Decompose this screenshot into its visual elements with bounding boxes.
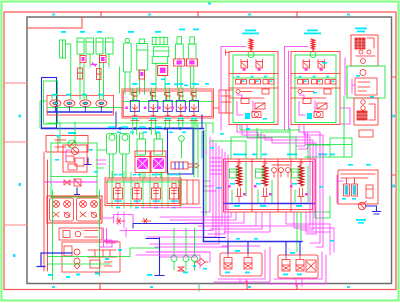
LCM magenta dots	[228, 185, 308, 196]
green riser bottom-center trio	[174, 228, 195, 256]
green under-row bus	[47, 123, 213, 133]
magenta from B1 bottom	[214, 125, 310, 227]
valve RV2	[100, 56, 107, 63]
twin cell 1	[50, 198, 74, 221]
LCM small valve group	[272, 165, 291, 177]
row2 frame	[122, 89, 214, 118]
LCM spring column 3	[298, 159, 304, 202]
title block box top-left	[27, 17, 82, 28]
green horiz bottom-left	[130, 248, 160, 257]
LCM cyan top labels	[233, 154, 335, 156]
block B1 small box	[262, 89, 269, 94]
valve RV5	[139, 70, 145, 79]
zone tick left	[4, 224, 27, 226]
check valve CV2	[74, 179, 81, 186]
enclosure E1	[51, 143, 97, 197]
LCM cyl 3	[292, 169, 299, 178]
wire riser	[119, 67, 121, 93]
accumulator A1	[107, 134, 117, 179]
LCM green internals	[232, 162, 308, 202]
block B1 magenta bit	[237, 95, 242, 99]
block B1 rail1	[229, 73, 278, 75]
LCM cell divider	[252, 159, 291, 212]
TR unit2 green frame	[347, 66, 385, 98]
TR unit2 circle	[360, 70, 366, 76]
valve cluster VC1 magenta	[66, 150, 70, 160]
end block row2	[219, 90, 233, 113]
block B1 box2	[241, 99, 249, 104]
LM unit 1	[112, 172, 124, 208]
pump P1 arrow	[69, 141, 75, 147]
RPU cylinder	[366, 185, 373, 198]
block B1 port circle	[248, 52, 254, 58]
block B1 magenta loop	[253, 101, 255, 112]
valve RV1	[80, 56, 86, 63]
block B2 rail3	[291, 97, 326, 99]
magenta stub to manifold	[204, 181, 216, 191]
cyan ticks on row1 top	[52, 94, 103, 96]
small valve SV1 under manifold	[116, 219, 151, 224]
TR unit3 frame	[354, 98, 378, 125]
valve cluster VC1 boxes	[66, 156, 84, 170]
block B2 magenta bit	[299, 95, 304, 99]
green cross lines bottom-left	[47, 257, 130, 265]
oval valve OV2	[64, 100, 75, 107]
magenta under LM	[141, 207, 201, 209]
LM unit 3	[150, 172, 162, 208]
block B1 label	[242, 30, 259, 35]
BVG1 unit b	[244, 253, 252, 269]
row1 blue bus inside	[48, 111, 112, 113]
cylinder E	[176, 37, 184, 88]
RPU blue drain	[366, 206, 381, 214]
RPU valve L	[344, 178, 350, 196]
magenta right of B2	[344, 58, 346, 95]
BVG2 frame	[278, 255, 318, 278]
zone tick bottom	[246, 281, 248, 290]
extra magenta bundle density	[96, 150, 334, 286]
zone letter left	[13, 254, 16, 257]
block B1 bottom circle box	[252, 112, 261, 118]
relief valve RV3	[78, 68, 83, 79]
BVG2 cyan	[283, 252, 302, 275]
lower complex internals	[64, 246, 116, 269]
cyan scatter top	[55, 29, 374, 276]
tank T1	[60, 40, 66, 58]
mini valve cyan ticks	[237, 76, 273, 82]
BVG2 unit c box	[306, 260, 316, 272]
drain tick blue	[85, 158, 91, 165]
twin cluster frame	[47, 196, 102, 223]
relief valve RV4	[97, 69, 102, 80]
blue bus bottom	[42, 128, 204, 130]
green stems under circles	[174, 262, 195, 271]
TR unit1 hatch box	[355, 38, 365, 49]
block B1 inner green	[233, 55, 274, 123]
magenta guide left of B1	[221, 47, 246, 131]
block B2 label	[304, 30, 321, 35]
blue bottom bus	[204, 241, 303, 243]
block B1 arrow valve	[255, 103, 265, 109]
green enclosure narrow	[44, 81, 58, 124]
zone number top	[347, 14, 350, 16]
cylinder pair CY2	[96, 38, 103, 54]
bottle accumulator B	[124, 38, 132, 94]
zone tick left	[4, 82, 27, 84]
zone letter right	[393, 185, 396, 188]
row2 green bus	[122, 101, 214, 103]
accumulator labels	[108, 126, 162, 128]
blue drop arrow	[75, 188, 80, 195]
cylinder CY1 caps	[77, 41, 84, 43]
oval valve OV1	[50, 100, 61, 107]
zone number bottom	[52, 286, 55, 288]
blue stub	[115, 112, 117, 129]
block B2 bottom magenta	[299, 102, 305, 116]
oval valve OV3	[80, 100, 91, 107]
zone letter right	[393, 115, 396, 118]
green circle J1	[171, 256, 177, 262]
accumulator A2	[120, 134, 130, 179]
zone tick top	[197, 12, 199, 17]
green verticals below row2	[133, 119, 137, 135]
magenta stubs left cluster	[104, 240, 115, 247]
TR unit3 hatch	[357, 111, 367, 120]
BVG1 frame	[220, 253, 262, 276]
cylinder F	[188, 37, 196, 88]
block B1 check circle	[236, 90, 252, 94]
TR unit1 frame	[351, 35, 378, 66]
TR unit3 circles	[361, 100, 365, 110]
green circle J2	[183, 256, 189, 262]
mixer box M2	[59, 228, 102, 240]
magenta riser bundle center	[201, 137, 210, 212]
TR unit1 circles	[359, 50, 371, 63]
block B2 check circle	[298, 90, 314, 94]
valve cluster VC1 frame	[63, 145, 87, 172]
BVG2 unit b	[296, 255, 304, 271]
filter C	[137, 39, 148, 94]
zone tick bottom	[99, 284, 101, 290]
zone number bottom	[347, 286, 350, 288]
valve unit VU5	[185, 83, 199, 119]
bottom-left blue pipe	[37, 253, 72, 267]
magenta pipe under manifold	[103, 215, 133, 223]
zone number top	[52, 14, 55, 16]
block B2 rail2	[291, 87, 340, 89]
block B2 arrow valve	[317, 103, 327, 109]
zone tick top	[100, 12, 102, 17]
zone tick bottom	[296, 284, 298, 290]
cylinder CY2 caps	[96, 41, 103, 43]
magenta loops left bottom	[104, 240, 118, 242]
magenta from B2 bottom	[299, 125, 320, 151]
blue riser left-center	[201, 115, 203, 128]
magenta under bottom valve groups	[218, 250, 265, 279]
block B1 mini valve row	[236, 80, 275, 85]
block B2 bottom circle box	[314, 112, 323, 118]
twin cell 2	[77, 198, 101, 221]
check valve CV1	[64, 180, 70, 185]
magenta guide pair	[288, 51, 290, 130]
gauge enclosure	[168, 128, 194, 174]
valve RV8	[186, 59, 197, 66]
LM unit 2	[131, 172, 143, 208]
accumulator A4	[154, 133, 163, 155]
LCM frame	[224, 159, 316, 212]
red tiny box right mid	[359, 130, 373, 137]
sub valve row magenta pipe	[45, 181, 97, 183]
red bowtie under circles	[178, 267, 184, 271]
red diamond left of BVG1	[194, 259, 208, 266]
pump P1 circle	[68, 140, 76, 148]
pump label	[68, 132, 76, 134]
tank T1 inner line	[62, 40, 64, 58]
zone letter left	[19, 115, 22, 118]
row1 frame	[47, 95, 114, 115]
mini valve cyan ticks	[299, 76, 335, 82]
blue enclosure narrow	[42, 78, 57, 129]
valve unit VU1	[125, 83, 139, 119]
green net below blocks	[231, 137, 296, 159]
green verticals through row1	[40, 93, 196, 168]
valve cluster VC1 pump circle	[71, 147, 78, 154]
zone number top	[148, 14, 151, 16]
zone tick top	[296, 12, 298, 17]
green route nest right	[305, 138, 352, 157]
BVG2 unit a	[282, 255, 290, 271]
RPU pump circle	[358, 201, 366, 210]
green feeder into green box	[60, 122, 75, 143]
block B1 rail2	[229, 87, 278, 89]
block B2 inner green	[295, 55, 336, 123]
accumulator A3	[137, 133, 146, 155]
valve unit VU2	[144, 83, 158, 119]
cyan dots bottom-left	[48, 249, 122, 278]
zone number bottom	[150, 286, 153, 288]
RPU magenta feed	[337, 175, 343, 203]
red dashes under units	[131, 120, 198, 122]
green rail right	[344, 66, 347, 157]
pump P1 internals	[55, 136, 66, 152]
LCM cyl 1	[230, 169, 237, 178]
TR unit1 bits	[356, 38, 375, 56]
row1 green bus	[47, 107, 123, 109]
blue branch	[133, 224, 204, 229]
block B1 rail3	[229, 97, 264, 99]
manifold LM frame	[105, 178, 181, 206]
BVG1 unit a	[224, 253, 232, 269]
blue riser mid bottom	[146, 238, 164, 276]
valve RV6	[158, 66, 168, 76]
block B1 cyan box	[245, 113, 250, 119]
zone letter left	[19, 183, 22, 186]
gauge G1	[179, 136, 185, 158]
end block detail	[214, 90, 232, 113]
LM green bus	[105, 181, 181, 183]
wire from T1	[66, 44, 71, 95]
oval valve OV4	[96, 100, 107, 107]
TR unit3 bits	[369, 104, 375, 120]
block B2 mini valve row	[298, 80, 337, 85]
LCM spring column 1	[236, 159, 242, 202]
block B2 cyan box	[307, 113, 312, 119]
block B2 frame	[291, 52, 340, 125]
filter F1	[135, 151, 150, 178]
manifold LM extension	[181, 180, 199, 204]
zone number bottom	[248, 286, 251, 288]
RPU frame	[338, 170, 378, 204]
wires below CY2	[99, 54, 101, 93]
magenta bottom staircase	[147, 251, 210, 253]
blue drops to BVG2	[286, 242, 300, 256]
block B2 spring	[311, 39, 315, 51]
LCM cyan labels inside	[217, 183, 303, 207]
valve RV7	[174, 59, 185, 66]
LCM blue bus	[224, 203, 314, 205]
cylinder pair CY1	[77, 38, 84, 54]
block B2 solenoid L	[303, 60, 310, 71]
block B2 magenta loop	[315, 101, 317, 112]
TR unit2 box	[355, 78, 377, 95]
zone number top	[208, 3, 211, 5]
zone number top	[248, 14, 251, 16]
block B1 frame	[229, 52, 278, 125]
blue drops from ovals	[55, 107, 101, 112]
green verticals bottom right of manifold	[297, 212, 301, 252]
block B1 solenoid R	[256, 60, 263, 71]
block B1 spring	[249, 39, 253, 51]
magenta guide between blocks	[285, 47, 309, 131]
RPU top rails	[341, 174, 375, 178]
valve unit VU4	[171, 83, 185, 119]
block B1 solenoid L	[241, 60, 248, 71]
blue junction dots	[119, 127, 181, 129]
lower complex frame	[62, 242, 120, 272]
blue drops to BVG1	[228, 242, 248, 254]
green rails through cluster	[53, 190, 100, 280]
motor D	[152, 37, 169, 88]
valve unit VU3	[158, 83, 172, 119]
green circle J3	[192, 256, 198, 262]
LCM cyl 2	[256, 169, 263, 178]
block B1 bottom magenta	[237, 102, 243, 116]
RPU cyan label	[356, 219, 366, 224]
wires below CY1	[79, 54, 81, 93]
green long risers center	[193, 120, 195, 177]
magenta right vertical pair	[310, 150, 320, 243]
zone tick right	[392, 76, 397, 78]
magenta hook right of B2	[341, 108, 350, 124]
zone number bottom	[193, 265, 196, 267]
block B2 port circle	[310, 52, 316, 58]
block B2 rail1	[291, 73, 340, 75]
zone tick bottom	[198, 284, 200, 292]
zone tick right	[392, 174, 397, 176]
magenta elbow right	[296, 133, 308, 149]
RPU valve R	[352, 178, 358, 196]
LCM spring column 2	[262, 159, 268, 202]
RPU green feed	[315, 196, 330, 218]
TR label	[355, 28, 367, 33]
blue main riser	[203, 131, 205, 242]
red nub into B1	[226, 50, 230, 55]
green horizontals left mid	[97, 150, 106, 168]
red rails	[44, 152, 48, 271]
block B2 box2	[303, 99, 311, 104]
heat exchanger HX	[171, 162, 199, 169]
TR unit2 magenta	[352, 79, 355, 93]
block B2 small box	[324, 89, 331, 94]
zone tick left	[4, 141, 27, 143]
green L to power unit	[314, 212, 316, 218]
pump P1 frame	[46, 136, 88, 153]
block B2 solenoid R	[318, 60, 325, 71]
arrow valve M1	[92, 63, 97, 66]
filter F2	[151, 151, 166, 178]
blue elbow top of center	[204, 237, 226, 239]
LM unit 4	[168, 172, 180, 208]
BVG1 cyan	[225, 250, 250, 273]
